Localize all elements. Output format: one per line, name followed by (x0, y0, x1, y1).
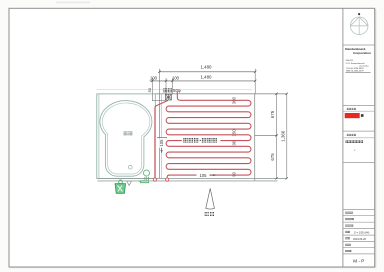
pipe connection circle A (153, 178, 156, 181)
project label 工事名称 (347, 108, 356, 110)
bottom table (343, 210, 375, 254)
dim line 1,480 upper (160, 71, 256, 73)
drawing row underline (343, 137, 375, 139)
svg-text:105: 105 (159, 139, 164, 147)
svg-text:1,480: 1,480 (201, 75, 213, 80)
bathtub label 浴槽 (124, 131, 133, 135)
svg-text:150: 150 (232, 129, 237, 137)
shower fixture (139, 170, 149, 183)
section line (top of project row) (343, 104, 375, 106)
dim line lower 100/100/1,480 (150, 80, 256, 82)
svg-text:2019.06.26: 2019.06.26 (353, 237, 367, 241)
drain square hatched (165, 94, 171, 100)
company separator line (343, 44, 375, 46)
dim 105 horizontal at bottom (185, 174, 196, 176)
room bottom line (97, 177, 287, 179)
address block (346, 60, 370, 73)
svg-text:50φ: 50φ (173, 88, 181, 93)
様 suffix (361, 114, 364, 117)
faint green layer line (97, 89, 253, 91)
entrance arrow (206, 188, 215, 209)
svg-text:675: 675 (270, 110, 275, 118)
logo circle (350, 17, 368, 35)
svg-text:540-011: 540-011 (346, 60, 354, 62)
table row labels (345, 212, 354, 252)
faint mark (354, 150, 355, 151)
svg-text:100: 100 (172, 75, 180, 80)
watering can fixture (115, 180, 126, 193)
svg-text:1,480: 1,480 (201, 65, 213, 70)
svg-text:M - P: M - P (353, 258, 364, 263)
bathtub keyhole inner (102, 103, 150, 174)
faint scanner mark top (56, 2, 90, 4)
svg-text:105: 105 (200, 173, 208, 178)
bathtub enclosure inner left line (98, 94, 100, 178)
address underline (345, 71, 370, 73)
drawing label 図面名称 (347, 134, 356, 136)
svg-text:90: 90 (232, 171, 237, 176)
drain label 排水50φ (163, 88, 172, 92)
supply pipe from drain to riser (155, 100, 168, 178)
svg-text:Corporation: Corporation (353, 51, 371, 55)
logo top dot (358, 13, 360, 15)
svg-text:675: 675 (270, 153, 275, 161)
project row underline (343, 110, 375, 112)
section line (343, 161, 375, 163)
svg-text:S = 1/30 (A4): S = 1/30 (A4) (354, 230, 369, 234)
section line (343, 130, 375, 132)
svg-text:90: 90 (232, 140, 237, 145)
right dim ticks (275, 93, 288, 180)
svg-text:50: 50 (147, 87, 152, 92)
tub drain circle (128, 165, 132, 169)
tick marks upper dim (151, 71, 256, 83)
dimension extension lines (top) (152, 69, 255, 101)
entrance label 入口 (205, 212, 214, 216)
right dimension extension lines (255, 94, 287, 179)
svg-text:1,360: 1,360 (280, 130, 285, 142)
bathtub enclosure outer rect (97, 94, 156, 178)
small rotated pitch labels (232, 96, 237, 176)
marker triangle below tub (127, 181, 132, 185)
heating coil serpentine (155, 92, 251, 178)
svg-text:300: 300 (232, 96, 237, 104)
sheet shadow (375, 9, 377, 268)
room center label 床暖房・岩盤浴 (182, 137, 221, 144)
dim 105 vertical at left (157, 136, 167, 138)
svg-text:100: 100 (150, 75, 158, 80)
drawing name 岩盤浴配管図 (346, 140, 364, 143)
pipe connection circle B (166, 178, 169, 181)
lower wall line (98, 180, 278, 182)
project name red box (345, 113, 360, 118)
bathtub keyhole outer (100, 101, 152, 177)
room rect: top wall + right wall + left double edge (155, 93, 287, 95)
title block left border (342, 8, 344, 267)
